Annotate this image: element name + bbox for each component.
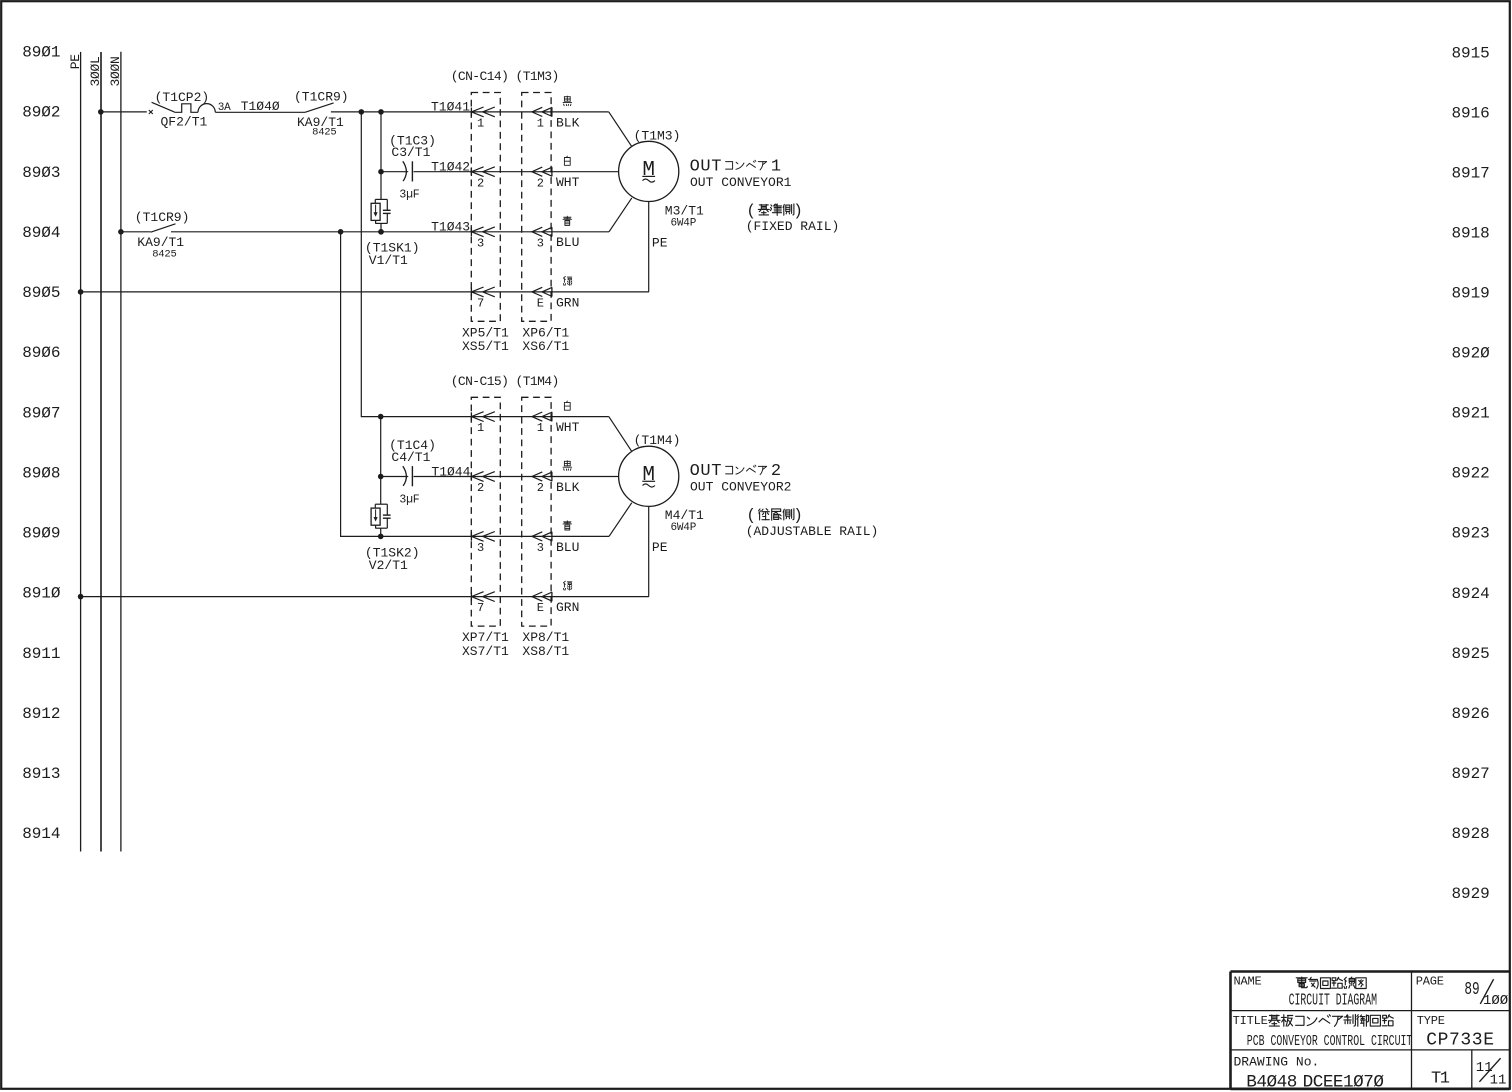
svg-text:XS7/T1: XS7/T1 xyxy=(462,644,509,659)
svg-text:BLK: BLK xyxy=(556,115,580,130)
svg-text:891Ø: 891Ø xyxy=(22,585,61,603)
svg-text:PE: PE xyxy=(68,54,83,70)
svg-text:3A: 3A xyxy=(218,102,231,114)
svg-text:V1/T1: V1/T1 xyxy=(369,253,408,268)
svg-text:C4/T1: C4/T1 xyxy=(391,450,430,465)
svg-text:OUT: OUT xyxy=(690,157,722,176)
svg-text:(T1CP2): (T1CP2) xyxy=(155,90,210,105)
svg-text:3µF: 3µF xyxy=(399,493,419,506)
svg-text:XS8/T1: XS8/T1 xyxy=(522,644,569,659)
svg-text:892Ø: 892Ø xyxy=(1452,345,1491,363)
svg-text:V2/T1: V2/T1 xyxy=(369,558,408,573)
svg-text:3: 3 xyxy=(537,541,544,555)
svg-text:2: 2 xyxy=(771,462,781,481)
svg-text:OUT CONVEYOR1: OUT CONVEYOR1 xyxy=(690,175,792,190)
svg-text:T1Ø4Ø: T1Ø4Ø xyxy=(241,99,280,114)
svg-text:7: 7 xyxy=(477,601,484,615)
svg-text:7: 7 xyxy=(477,297,484,311)
svg-text:NAME: NAME xyxy=(1234,974,1262,988)
svg-text:(: ( xyxy=(746,507,756,525)
svg-text:(FIXED RAIL): (FIXED RAIL) xyxy=(746,219,840,234)
svg-text:(T1M3): (T1M3) xyxy=(634,128,681,143)
svg-text:8918: 8918 xyxy=(1452,225,1490,243)
svg-text:6W4P: 6W4P xyxy=(671,217,697,229)
svg-text:8924: 8924 xyxy=(1452,585,1490,603)
svg-text:8425: 8425 xyxy=(312,126,336,138)
svg-text:89Ø3: 89Ø3 xyxy=(22,164,60,182)
svg-text:89Ø1: 89Ø1 xyxy=(22,44,60,62)
svg-text:T1: T1 xyxy=(1431,1069,1450,1088)
svg-text:8928: 8928 xyxy=(1452,825,1490,843)
svg-text:89Ø4: 89Ø4 xyxy=(22,224,60,242)
svg-text:CP733E: CP733E xyxy=(1426,1030,1494,1050)
svg-text:8927: 8927 xyxy=(1452,765,1490,783)
svg-text:2: 2 xyxy=(537,176,544,190)
svg-text:1: 1 xyxy=(477,421,484,435)
svg-text:): ) xyxy=(793,507,803,525)
svg-text:TITLE: TITLE xyxy=(1233,1014,1268,1028)
svg-text:89Ø8: 89Ø8 xyxy=(22,464,60,482)
svg-text:PE: PE xyxy=(652,235,668,250)
svg-text:DRAWING No.: DRAWING No. xyxy=(1234,1054,1320,1069)
svg-text:XS6/T1: XS6/T1 xyxy=(522,339,569,354)
svg-text:3µF: 3µF xyxy=(399,189,419,202)
svg-text:DCEE1Ø7Ø: DCEE1Ø7Ø xyxy=(1303,1072,1385,1092)
svg-text:8916: 8916 xyxy=(1452,105,1490,123)
svg-text:8914: 8914 xyxy=(22,825,60,843)
svg-text:(CN-C14) (T1M3): (CN-C14) (T1M3) xyxy=(451,69,559,84)
svg-text:1ØØ: 1ØØ xyxy=(1483,993,1508,1009)
svg-text:3ØØL: 3ØØL xyxy=(88,56,103,86)
svg-text:WHT: WHT xyxy=(556,175,580,190)
svg-text:BLU: BLU xyxy=(556,540,579,555)
svg-text:GRN: GRN xyxy=(556,295,579,310)
svg-text:11: 11 xyxy=(1490,1072,1507,1088)
svg-text:8911: 8911 xyxy=(22,645,60,663)
svg-text:PCB CONVEYOR CONTROL CIRCUIT: PCB CONVEYOR CONTROL CIRCUIT xyxy=(1247,1034,1413,1050)
svg-text:(T1M4): (T1M4) xyxy=(634,433,681,448)
svg-text:89Ø9: 89Ø9 xyxy=(22,525,60,543)
svg-text:8913: 8913 xyxy=(22,765,60,783)
svg-text:8912: 8912 xyxy=(22,705,60,723)
svg-text:8925: 8925 xyxy=(1452,645,1490,663)
svg-text:WHT: WHT xyxy=(556,420,580,435)
svg-text:M3/T1: M3/T1 xyxy=(665,203,704,218)
svg-text:8926: 8926 xyxy=(1452,705,1490,723)
svg-text:BLK: BLK xyxy=(556,480,580,495)
svg-text:PAGE: PAGE xyxy=(1416,974,1444,988)
svg-text:E: E xyxy=(537,601,544,615)
svg-text:8425: 8425 xyxy=(152,249,176,261)
svg-text:(T1CR9): (T1CR9) xyxy=(294,90,349,105)
svg-text:T1Ø41: T1Ø41 xyxy=(431,100,470,115)
svg-text:(ADJUSTABLE RAIL): (ADJUSTABLE RAIL) xyxy=(746,524,879,539)
svg-text:8929: 8929 xyxy=(1452,885,1490,903)
svg-text:1: 1 xyxy=(477,117,484,131)
svg-text:PE: PE xyxy=(652,540,668,555)
svg-text:8917: 8917 xyxy=(1452,165,1490,183)
svg-text:3: 3 xyxy=(477,236,484,250)
svg-text:(T1CR9): (T1CR9) xyxy=(135,210,190,225)
svg-text:89: 89 xyxy=(1464,979,1479,1000)
svg-text:8922: 8922 xyxy=(1452,465,1490,483)
svg-text:1: 1 xyxy=(537,421,544,435)
svg-text:): ) xyxy=(793,202,803,220)
svg-text:B4Ø48: B4Ø48 xyxy=(1246,1072,1297,1092)
svg-text:1: 1 xyxy=(771,157,781,176)
svg-text:XS5/T1: XS5/T1 xyxy=(462,339,509,354)
svg-text:89Ø5: 89Ø5 xyxy=(22,284,60,302)
svg-text:T1Ø44: T1Ø44 xyxy=(431,464,470,479)
svg-text:2: 2 xyxy=(477,176,484,190)
svg-text:CIRCUIT DIAGRAM: CIRCUIT DIAGRAM xyxy=(1289,991,1377,1011)
svg-text:(CN-C15) (T1M4): (CN-C15) (T1M4) xyxy=(451,374,559,389)
svg-text:(: ( xyxy=(746,202,756,220)
svg-text:3: 3 xyxy=(537,236,544,250)
svg-text:BLU: BLU xyxy=(556,235,579,250)
svg-text:T1Ø43: T1Ø43 xyxy=(431,220,470,235)
svg-text:8923: 8923 xyxy=(1452,525,1490,543)
svg-text:1: 1 xyxy=(537,117,544,131)
svg-text:89Ø2: 89Ø2 xyxy=(22,104,60,122)
svg-text:C3/T1: C3/T1 xyxy=(391,145,430,160)
svg-text:T1Ø42: T1Ø42 xyxy=(431,160,470,175)
svg-text:QF2/T1: QF2/T1 xyxy=(161,115,208,130)
svg-text:2: 2 xyxy=(477,481,484,495)
svg-text:GRN: GRN xyxy=(556,600,579,615)
svg-text:89Ø6: 89Ø6 xyxy=(22,344,60,362)
svg-text:OUT CONVEYOR2: OUT CONVEYOR2 xyxy=(690,480,791,495)
svg-text:8921: 8921 xyxy=(1452,405,1490,423)
svg-text:3: 3 xyxy=(477,541,484,555)
svg-text:M4/T1: M4/T1 xyxy=(665,508,704,523)
svg-text:2: 2 xyxy=(537,481,544,495)
svg-text:TYPE: TYPE xyxy=(1417,1014,1445,1028)
svg-text:8919: 8919 xyxy=(1452,285,1490,303)
svg-text:OUT: OUT xyxy=(690,462,722,481)
svg-text:6W4P: 6W4P xyxy=(671,522,697,534)
svg-text:8915: 8915 xyxy=(1452,45,1490,63)
svg-text:E: E xyxy=(537,297,544,311)
svg-text:89Ø7: 89Ø7 xyxy=(22,404,60,422)
svg-text:3ØØN: 3ØØN xyxy=(108,56,123,86)
